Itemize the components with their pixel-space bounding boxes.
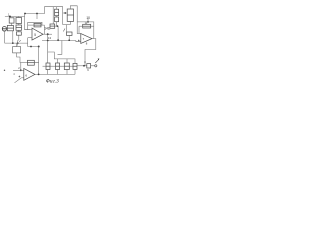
svg-text:13: 13 [48, 36, 52, 40]
wire [43, 65, 47, 67]
node P [4, 70, 5, 71]
wire [57, 26, 59, 40]
wire [50, 65, 56, 67]
wire [27, 22, 29, 29]
wire [91, 25, 94, 27]
node N [38, 74, 40, 76]
resistor R6 [55, 9, 59, 16]
node D [17, 42, 19, 44]
wire [52, 7, 54, 24]
node H [57, 25, 59, 27]
node K [47, 40, 49, 42]
svg-text:10: 10 [86, 16, 90, 20]
wire [66, 70, 68, 75]
wire [66, 25, 68, 32]
output terminal [95, 65, 97, 67]
wire [12, 31, 14, 43]
resistor R4 [17, 32, 22, 35]
wire [60, 65, 65, 67]
node B [24, 13, 26, 15]
node G [47, 33, 49, 35]
wire [87, 19, 89, 22]
plus mark [78, 40, 80, 42]
wire bottom rail [35, 73, 75, 75]
op-amp U2 feedback rail [77, 22, 94, 39]
wire [77, 22, 81, 34]
resistor R8 [67, 9, 73, 21]
wire [16, 43, 18, 47]
wire [18, 16, 20, 17]
wire [41, 25, 44, 34]
transistor Q1 [2, 27, 6, 32]
resistor R7 [55, 17, 59, 22]
node R [9, 15, 11, 17]
wire [68, 35, 70, 40]
resistor R1 [9, 18, 14, 23]
wire [21, 77, 24, 79]
wire [47, 34, 49, 40]
wire [28, 38, 39, 47]
transistor ticks [63, 29, 65, 32]
node Q [87, 21, 89, 23]
wire [34, 63, 38, 75]
wire [13, 69, 24, 71]
wire [69, 65, 73, 67]
wire op-amp U2 output [85, 39, 96, 61]
node E [30, 46, 32, 48]
resistor R14 [73, 63, 77, 69]
wire [17, 53, 20, 63]
node L [68, 39, 70, 41]
wire [17, 40, 19, 45]
wire [77, 65, 87, 67]
wire [20, 63, 22, 71]
wire [63, 12, 67, 14]
svg-text:6: 6 [25, 73, 27, 77]
wire [55, 25, 58, 27]
arrowhead [84, 62, 86, 64]
wire [56, 22, 58, 26]
wire [84, 61, 86, 66]
resistor R11 [56, 63, 60, 70]
wire [5, 15, 25, 17]
wire [78, 26, 80, 33]
node F [38, 46, 40, 48]
svg-text:Фиг.3: Фиг.3 [46, 79, 59, 84]
wire [5, 42, 28, 44]
wire [28, 24, 34, 26]
wire [36, 14, 38, 20]
resistor R5 [34, 23, 41, 27]
wire [11, 23, 13, 25]
node C [12, 42, 14, 44]
op-amp U1 [32, 28, 43, 40]
output arrow [95, 59, 98, 63]
wire [25, 29, 32, 31]
wire [69, 21, 71, 24]
wire [19, 40, 21, 42]
wire [63, 24, 71, 26]
wire [79, 25, 83, 27]
wire [91, 65, 95, 67]
resistor R12 [64, 63, 69, 70]
wire [76, 41, 81, 42]
main rail [42, 40, 76, 42]
box 17 [87, 64, 91, 68]
resistor R9 [83, 24, 91, 28]
wire [47, 70, 49, 75]
op-amp U3 [24, 69, 35, 81]
node I [57, 39, 59, 41]
resistor R10 [46, 63, 50, 70]
wire [66, 59, 68, 63]
wire [56, 7, 58, 10]
resistor R2 [7, 26, 13, 31]
wire [47, 52, 49, 63]
svg-text:8: 8 [86, 42, 88, 46]
box 13 [50, 24, 55, 28]
wire diagonal [15, 78, 22, 83]
wire [28, 37, 32, 39]
wire [25, 14, 30, 30]
resistor R3b [16, 25, 22, 30]
wire op-amp U1 output [43, 33, 52, 35]
node M [83, 65, 85, 67]
svg-text:7: 7 [83, 37, 85, 41]
wire [4, 31, 6, 43]
svg-text:9: 9 [87, 68, 89, 72]
op-amp U2 [81, 34, 92, 44]
wire [70, 6, 77, 22]
node J [64, 12, 66, 14]
resistor R13 [28, 60, 35, 65]
node O [20, 69, 22, 71]
plus mark [19, 76, 21, 78]
svg-text:4: 4 [13, 72, 15, 76]
wire [74, 69, 76, 74]
arrowhead [98, 59, 100, 61]
wire [25, 7, 63, 25]
wire [56, 16, 58, 18]
wire [57, 70, 59, 75]
resistor R3 [16, 18, 22, 24]
op-amp U3 feedback [20, 62, 28, 64]
svg-text:2: 2 [18, 66, 20, 70]
wire [38, 47, 40, 63]
node A [36, 13, 38, 15]
wire [18, 30, 20, 32]
wire [18, 24, 20, 26]
wire [57, 59, 59, 63]
wire [58, 41, 62, 55]
wire [18, 35, 20, 40]
op-amp U1 feedback rail [28, 22, 42, 25]
staircase wire [48, 41, 75, 64]
svg-text:5: 5 [34, 33, 36, 37]
box 12 [13, 47, 21, 53]
box 15 [67, 32, 73, 35]
